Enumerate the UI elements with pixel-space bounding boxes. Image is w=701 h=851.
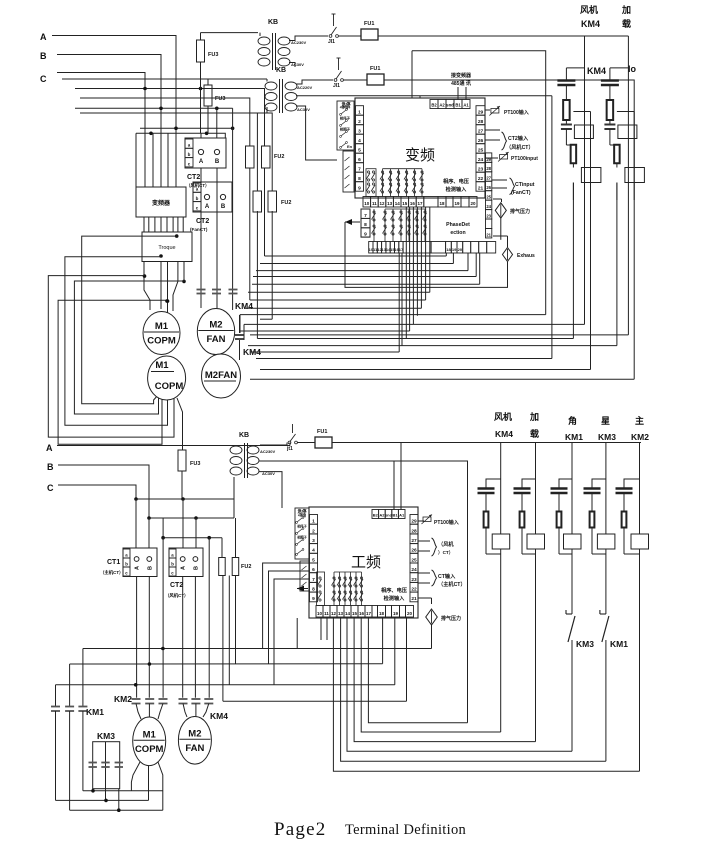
svg-text:相序、电压: 相序、电压: [443, 177, 470, 185]
svg-text:AC220V: AC220V: [297, 85, 312, 90]
wire left loop 2: [65, 257, 168, 426]
wire mid bus y133: [136, 133, 225, 138]
svg-text:22: 22: [411, 587, 417, 593]
svg-text:A: A: [40, 32, 47, 42]
svg-text:主: 主: [635, 415, 644, 426]
svg-text:Exhaus: Exhaus: [517, 253, 535, 259]
svg-text:21: 21: [411, 596, 417, 602]
motor M1 COPM (second): [148, 356, 186, 400]
terminal strip left 1-9 (bottom block): [310, 515, 318, 525]
svg-text:载: 载: [530, 428, 539, 439]
svg-text:9: 9: [358, 186, 361, 192]
svg-text:风机: 风机: [494, 411, 512, 422]
svg-text:B: B: [193, 566, 199, 570]
sensor PT100 (bottom block): [418, 520, 424, 522]
svg-text:B: B: [47, 462, 54, 472]
wire phase A top: [52, 36, 176, 188]
svg-text:25: 25: [411, 557, 417, 563]
svg-text:23: 23: [411, 577, 417, 583]
svg-text:检测输入: 检测输入: [446, 185, 468, 193]
brace CT input fan2: [492, 179, 507, 181]
svg-text:A: A: [46, 443, 53, 453]
capacitor mark right of FAN: [235, 334, 244, 336]
svg-text:FU3: FU3: [190, 461, 200, 467]
svg-text:5: 5: [358, 148, 361, 154]
svg-text:B: B: [215, 159, 220, 165]
svg-text:1: 1: [312, 519, 315, 525]
svg-text:M2FAN: M2FAN: [205, 370, 237, 381]
diamond exhaust pressure (bottom): [418, 597, 432, 599]
svg-text:12: 12: [331, 611, 337, 616]
svg-text:14: 14: [395, 201, 401, 206]
wire left loop 4: [74, 281, 183, 414]
svg-text:7: 7: [312, 577, 315, 583]
svg-text:ection: ection: [450, 230, 465, 236]
svg-text:4: 4: [312, 548, 315, 554]
block power frequency outline 工频: [309, 507, 418, 618]
motor M2 FAN (bottom): [178, 717, 211, 765]
aux box left of bottom block: [300, 561, 309, 591]
svg-text:相序、电压: 相序、电压: [381, 586, 408, 594]
svg-text:jt1: jt1: [286, 446, 293, 452]
svg-text:COPM: COPM: [147, 336, 176, 347]
svg-text:相序子: 相序子: [296, 524, 307, 529]
wire motor entries M1: [136, 704, 141, 720]
svg-text:FU1: FU1: [370, 66, 380, 72]
svg-text:7: 7: [358, 167, 361, 173]
svg-text:14: 14: [345, 611, 351, 616]
svg-text:变频: 变频: [405, 147, 435, 164]
svg-text:KM4: KM4: [495, 429, 513, 439]
motor M1 COPM (top): [143, 312, 180, 355]
terminal strip top B2 A2 snd B1 A1: [430, 100, 438, 109]
svg-text:PT100输入: PT100输入: [434, 519, 459, 526]
svg-text:A: A: [181, 566, 187, 570]
svg-text:10: 10: [317, 611, 323, 616]
svg-text:En: En: [347, 144, 353, 149]
switch JT1 (top): [329, 35, 332, 38]
svg-text:CT1: CT1: [107, 559, 120, 566]
svg-text:AC30V: AC30V: [297, 107, 310, 112]
svg-text:3: 3: [358, 129, 361, 135]
wire CT feeders: [182, 499, 184, 548]
contact KM2 bars above M1 (bottom): [132, 698, 141, 700]
svg-text:27: 27: [478, 129, 484, 135]
svg-text:Troque: Troque: [158, 245, 175, 251]
svg-text:4停借4: 4停借4: [340, 105, 351, 110]
wire left KM1 loop verticals: [82, 649, 84, 707]
svg-text:8: 8: [312, 587, 315, 593]
svg-text:FU2: FU2: [281, 200, 291, 206]
wire branch sub verticals down: [590, 183, 592, 370]
aux box left of block: [343, 151, 354, 192]
wire branch2 main vertical: [627, 36, 629, 335]
wire branch1 main vertical: [584, 36, 586, 324]
svg-text:lo: lo: [628, 64, 637, 74]
svg-text:29: 29: [478, 110, 484, 116]
svg-text:19: 19: [454, 201, 460, 206]
svg-text:26: 26: [411, 548, 417, 554]
svg-text:FU1: FU1: [364, 21, 374, 27]
wire M1 bottom leads: [131, 762, 140, 791]
svg-text:19: 19: [452, 247, 457, 252]
svg-text:B2: B2: [431, 102, 437, 107]
svg-text:18: 18: [439, 201, 445, 206]
svg-text:KM3: KM3: [576, 639, 594, 649]
bus bottom y810: [70, 809, 163, 811]
svg-text:KM1: KM1: [565, 432, 583, 442]
svg-text:FAN: FAN: [207, 334, 226, 345]
svg-text:CT2: CT2: [170, 582, 183, 589]
wire mesh horizontals mid: [265, 255, 447, 257]
sub block phase detection: [361, 209, 370, 237]
svg-text:A1: A1: [399, 512, 405, 517]
relay contacts sub block: [373, 209, 375, 242]
svg-text:(FanCT): (FanCT): [511, 190, 531, 196]
svg-text:13: 13: [387, 201, 393, 206]
fuse FU3 (bottom): [177, 398, 183, 450]
svg-text:(FanCT): (FanCT): [190, 227, 208, 232]
wire KB2 secondary top: [296, 80, 333, 84]
svg-text:COPM: COPM: [155, 381, 184, 392]
wire to CT primary: [200, 133, 202, 138]
svg-text:26: 26: [486, 185, 491, 190]
svg-text:A: A: [205, 204, 210, 210]
wire phase C bottom: [58, 485, 136, 499]
svg-text:2: 2: [312, 528, 315, 534]
svg-text:25: 25: [486, 195, 491, 200]
svg-text:17: 17: [417, 201, 423, 206]
arrow external (bottom): [297, 588, 308, 590]
svg-text:相序子: 相序子: [340, 116, 351, 121]
svg-text:AC230V: AC230V: [260, 449, 275, 454]
sensor PT100 input (top): [485, 109, 490, 111]
svg-text:b: b: [125, 561, 128, 566]
arrow external: [345, 221, 360, 223]
svg-text:9: 9: [364, 232, 367, 238]
sensor PT100 input (mid): [485, 157, 498, 159]
svg-text:角: 角: [568, 415, 577, 426]
svg-text:26: 26: [478, 138, 484, 144]
svg-text:M2: M2: [188, 728, 201, 739]
svg-text:M1: M1: [143, 729, 157, 740]
svg-text:29: 29: [411, 519, 417, 525]
inverter box 变频器: [136, 187, 186, 217]
wire KM4 branch feed top: [378, 35, 628, 37]
svg-text:6: 6: [358, 157, 361, 163]
wire bottom bus y499: [136, 498, 234, 500]
bus bottom y800: [56, 799, 149, 801]
contact KM1 interlock: [600, 613, 606, 615]
svg-text:FU3: FU3: [215, 96, 225, 102]
terminal strip right 29-21: [476, 106, 485, 116]
svg-text:B2: B2: [373, 512, 379, 517]
torque box: [142, 232, 192, 262]
wire phase A bottom: [57, 445, 290, 447]
svg-text:FU2: FU2: [274, 154, 284, 160]
bus horizontal y646: [83, 648, 432, 650]
current transformer CT2 fanCT box: [193, 182, 232, 212]
wire KB1 secondary bottom: [289, 63, 295, 68]
svg-text:KM1: KM1: [610, 639, 628, 649]
wire mesh vertical stubs: [398, 253, 400, 352]
svg-text:23: 23: [478, 167, 484, 173]
emergency stop box (top left of block): [337, 101, 354, 150]
svg-text:24: 24: [411, 567, 417, 573]
svg-text:7: 7: [364, 213, 367, 219]
wire KB3 secondary top: [260, 443, 287, 446]
svg-text:（风机: （风机: [438, 540, 454, 548]
svg-text:KM4: KM4: [587, 66, 606, 76]
svg-text:FAN: FAN: [185, 743, 204, 754]
svg-text:b: b: [196, 196, 199, 201]
wire left cell drops (bottom block): [320, 617, 322, 640]
svg-text:9: 9: [312, 596, 315, 602]
fuse FU3 (top): [200, 33, 202, 40]
svg-text:15: 15: [402, 201, 408, 206]
contactor branch load (bottom): [535, 443, 537, 535]
svg-text:485通 讯: 485通 讯: [451, 80, 471, 87]
svg-text:18: 18: [379, 611, 385, 616]
fuse FU3 (second): [207, 79, 209, 85]
svg-text:28: 28: [486, 166, 491, 171]
wire left loop 5: [58, 300, 167, 444]
svg-text:16: 16: [359, 611, 365, 616]
svg-text:FU1: FU1: [317, 429, 327, 435]
svg-text:A2: A2: [439, 102, 445, 107]
terminal strip bottom second row: [369, 242, 373, 254]
svg-text:KM4: KM4: [210, 711, 228, 721]
svg-text:4停借: 4停借: [298, 513, 307, 518]
svg-text:23: 23: [486, 213, 491, 218]
wire FU3 top feed: [201, 32, 259, 34]
svg-text:27: 27: [486, 176, 491, 181]
switch jt1 (bottom): [288, 441, 291, 444]
svg-text:载: 载: [622, 18, 631, 29]
svg-text:20: 20: [458, 247, 463, 252]
wire KB2 mid tap to branch: [296, 95, 552, 97]
wire mesh left drops to motor area: [239, 315, 241, 333]
brace main CT (bottom): [418, 572, 430, 574]
svg-text:8: 8: [364, 222, 367, 228]
svg-text:（主机CT）: （主机CT）: [100, 569, 123, 576]
svg-text:5: 5: [312, 557, 315, 563]
svg-text:JI1: JI1: [328, 39, 335, 45]
svg-text:KM2: KM2: [114, 694, 132, 704]
contactor branch KM4 fan (cap+resistor+coil): [566, 67, 584, 69]
svg-text:21: 21: [486, 232, 491, 237]
fuse FU1 (bottom): [298, 442, 316, 444]
svg-text:18: 18: [446, 247, 451, 252]
wire fan/load row feed: [384, 80, 634, 379]
svg-text:20: 20: [470, 201, 476, 206]
svg-text:b: b: [188, 152, 191, 157]
wire top cell jumpers (bottom block): [393, 461, 395, 510]
current transformer CT2 fan box (bottom): [169, 548, 203, 577]
wire left loop 1: [82, 236, 177, 404]
svg-text:M2: M2: [209, 320, 222, 331]
wire KB2 primary connections: [266, 79, 268, 82]
wire KM1 loop verticals lower: [82, 711, 84, 791]
svg-text:11: 11: [324, 611, 329, 616]
svg-text:KB: KB: [276, 67, 286, 74]
svg-text:B1: B1: [455, 102, 461, 107]
wire y537 bus: [163, 537, 222, 539]
wire bottom cells 18-20 drops: [382, 617, 384, 664]
svg-text:KM1: KM1: [86, 707, 104, 717]
svg-text:B: B: [221, 204, 226, 210]
svg-text:（风机CT）: （风机CT）: [165, 592, 188, 599]
svg-text:排气压力: 排气压力: [510, 208, 530, 215]
svg-text:13: 13: [338, 611, 344, 616]
svg-text:JI1: JI1: [333, 83, 340, 89]
svg-text:KM4: KM4: [235, 301, 253, 311]
svg-text:25: 25: [478, 148, 484, 154]
terminal strip top (bottom block): [372, 510, 379, 519]
svg-text:29: 29: [486, 157, 491, 162]
wire bottom feed to branch bus: [332, 442, 641, 444]
wire KB1 primary connections: [259, 33, 261, 36]
contact KM4 bars above M2 (bottom): [179, 698, 188, 700]
svg-text:相期子: 相期子: [296, 535, 307, 540]
svg-text:星: 星: [601, 416, 610, 426]
svg-text:KM3: KM3: [97, 731, 115, 741]
contactor branch KM2 (main): [639, 443, 641, 535]
wire left bus y88: [75, 89, 265, 147]
svg-text:28: 28: [478, 119, 484, 125]
wire FU2 lower feeds: [249, 168, 251, 300]
svg-text:C: C: [40, 74, 47, 84]
svg-text:工频: 工频: [351, 554, 381, 571]
svg-text:16: 16: [410, 201, 416, 206]
relay contacts inside block (bottom): [317, 572, 325, 606]
wire inverter inputs: [144, 133, 146, 187]
svg-text:21: 21: [478, 186, 484, 192]
svg-text:6: 6: [312, 567, 315, 573]
wire left bus y108: [75, 107, 233, 109]
svg-text:PhaseDet: PhaseDet: [446, 222, 470, 228]
bus horizontal y664: [70, 663, 383, 665]
wire inverter to torque box: [143, 217, 145, 232]
wire phase C top: [57, 73, 145, 188]
wire KB1 secondary top: [289, 36, 328, 41]
svg-text:CT输入: CT输入: [438, 572, 456, 580]
svg-text:（主机CT）: （主机CT）: [438, 580, 466, 588]
svg-text:KB: KB: [239, 432, 249, 439]
svg-text:4: 4: [358, 138, 361, 144]
fuse FU1 (second): [344, 79, 368, 81]
block converter outline 变频: [355, 98, 485, 198]
wire FU2 outputs down to mesh: [256, 211, 258, 339]
bus horizontal y685: [56, 684, 395, 686]
svg-text:变频器: 变频器: [152, 199, 171, 207]
current transformer CT1 main box: [123, 548, 157, 577]
svg-text:KM2: KM2: [631, 432, 649, 442]
svg-text:15: 15: [352, 611, 358, 616]
brace fan CT (bottom): [418, 540, 430, 542]
svg-text:2: 2: [358, 119, 361, 125]
svg-text:KM3: KM3: [598, 432, 616, 442]
svg-text:KM4: KM4: [581, 19, 600, 29]
svg-text:Terminal Definition: Terminal Definition: [345, 822, 467, 838]
motor M1 COPM (bottom): [133, 717, 166, 766]
svg-text:FU3: FU3: [208, 52, 218, 58]
svg-text:28: 28: [411, 528, 417, 534]
current transformer CT2 fan box: [185, 138, 226, 168]
svg-text:A: A: [199, 159, 204, 165]
brace CT2 input fan: [485, 129, 500, 131]
diamond exhaust (lower): [493, 235, 508, 237]
svg-text:3: 3: [312, 538, 315, 544]
wire torque outputs to motor M1: [144, 262, 150, 311]
contactor branch KM3 (star): [605, 443, 607, 535]
contact KM3 interlock: [571, 554, 573, 614]
svg-text:1: 1: [358, 110, 361, 116]
wire top cell jumpers up: [411, 51, 413, 98]
svg-text:KB: KB: [268, 19, 278, 26]
svg-text:Page2: Page2: [274, 819, 326, 840]
contact KM4 bars above M2: [197, 289, 206, 291]
bus horizontal y701: [223, 700, 407, 702]
svg-text:CTinput: CTinput: [515, 182, 535, 188]
wire bottom mesh set: [333, 617, 639, 771]
wire KB3 lower secondary: [259, 461, 468, 723]
svg-text:PT100输入: PT100输入: [504, 109, 529, 116]
terminal strip left 1-9: [356, 106, 364, 116]
motor M2 FAN (top): [197, 309, 234, 355]
wire phase C lower run: [62, 78, 267, 80]
wire phase B top: [57, 55, 161, 188]
wire bottom bus y518: [149, 517, 234, 519]
svg-text:snd: snd: [446, 102, 454, 107]
wire left bus y98: [80, 98, 250, 146]
svg-text:A1: A1: [463, 102, 469, 107]
svg-text:排气压力: 排气压力: [441, 615, 461, 622]
svg-text:8: 8: [358, 176, 361, 182]
svg-text:A: A: [135, 566, 141, 570]
wire motor entries M2: [183, 704, 187, 718]
emergency stop box (bottom block): [295, 508, 309, 559]
svg-text:接变频器: 接变频器: [450, 72, 472, 79]
svg-text:20: 20: [407, 611, 413, 616]
svg-text:27: 27: [411, 538, 417, 544]
contactor branch fan KM4 (bottom): [500, 443, 502, 535]
svg-text:FU2: FU2: [241, 564, 251, 570]
svg-text:22: 22: [478, 176, 484, 182]
svg-text:19: 19: [393, 611, 399, 616]
svg-text:相期子: 相期子: [340, 127, 351, 132]
wire left bus y113: [80, 113, 272, 191]
second right terminal column: [486, 153, 492, 162]
svg-text:加: 加: [529, 411, 539, 422]
fuse FU2 pair (lower): [253, 191, 262, 212]
svg-text:10: 10: [364, 201, 370, 206]
svg-text:加: 加: [621, 4, 631, 15]
terminal strip bottom 10-20 (bottom block): [316, 606, 323, 618]
svg-text:M1: M1: [155, 321, 169, 332]
svg-text:C: C: [47, 483, 54, 493]
wire KB2 secondary bottom: [296, 106, 337, 160]
bus bottom y791: [83, 790, 163, 792]
svg-text:CT2输入: CT2输入: [508, 134, 529, 142]
svg-text:COPM: COPM: [135, 744, 164, 755]
motor M2FAN (second): [202, 354, 241, 398]
fuse FU1 (top): [339, 35, 362, 37]
relay contacts inside converter block: [366, 169, 376, 197]
fuse FU2 pair (upper): [246, 146, 255, 168]
fuse FU2 (bottom pair): [219, 558, 226, 576]
wire CT outputs down: [136, 577, 138, 698]
